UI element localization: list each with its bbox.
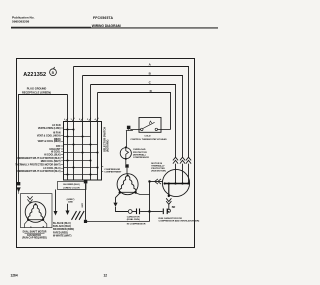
wire and to chassis [67,204,69,211]
switch contact row 6 [64,167,99,169]
wire from switch down [85,183,87,219]
connector chevrons wire C [173,157,178,163]
svg-text:AND: AND [68,201,73,204]
svg-text:VENT & COOL (MED): VENT & COOL (MED) [38,141,61,143]
svg-text:COMPARTMENT: COMPARTMENT [104,171,122,174]
wire square to thermostat [130,129,140,131]
wire C into motor [175,164,177,184]
capacitor label [127,215,146,225]
arrowhead on S lead [113,203,117,207]
svg-text:BLOWER (BLK): BLOWER (BLK) [63,184,80,186]
fan motor label [151,163,166,173]
svg-text:PLUG GROUND: PLUG GROUND [27,87,47,91]
blower motor label [22,230,47,239]
svg-text:1264: 1264 [11,274,18,278]
capacitor plates section 1 [136,209,138,215]
svg-text:BR: BR [172,206,176,209]
connector chevrons left lead [155,179,161,184]
switch output junction square [84,180,88,184]
switch column 4 [97,93,99,181]
thermostat TH1 box [139,118,161,133]
plug / receptacle label [22,87,51,95]
switch contact row 4 [64,152,99,154]
fan motor winding stub [168,184,170,197]
blower winding left coil [28,204,36,219]
fan motor left lead [150,181,163,183]
header publication number [12,15,35,23]
svg-text:PERMANENT SPLIT CAP MOTOR (BLU: PERMANENT SPLIT CAP MOTOR (BLU) [17,170,60,173]
compressor S lead to capacitor [116,193,121,203]
svg-text:LO COOL (BLU): LO COOL (BLU) [43,168,61,170]
svg-text:IN COMPRESSOR: IN COMPRESSOR [127,224,146,226]
wire across bottom [86,221,150,223]
blower motor M2 [25,202,46,223]
svg-text:(GREY): (GREY) [67,199,75,201]
svg-text:COMPRESSOR: COMPRESSOR [133,157,149,159]
junction node on capacitor line [148,210,150,212]
blower winding right coil [36,204,44,219]
overload label [133,148,149,159]
svg-text:12: 12 [104,274,108,278]
compressor winding right coil [128,175,136,192]
connector chevrons into blower [27,196,32,202]
svg-text:HI FAN: HI FAN [53,132,61,135]
svg-text:OVERLOAD: OVERLOAD [133,148,146,151]
svg-text:(INTERNAL): (INTERNAL) [133,153,146,156]
svg-text:HI COOL: HI COOL [51,151,61,153]
svg-text:(DUAL RUN): (DUAL RUN) [127,218,140,221]
svg-text:GRY: GRY [82,202,84,207]
switch column 2 [82,76,84,181]
fan motor terminal bar [164,183,190,185]
overload bimetal symbol [126,147,129,159]
svg-text:MED COOL (WHT): MED COOL (WHT) [41,161,61,163]
wire color code legend [53,222,74,238]
wire D [98,93,171,130]
switch terminal hooks [66,118,99,121]
switch box right stubs [101,166,103,168]
thermostat actuator mark [149,121,152,124]
switch contact row 2 [64,136,91,138]
svg-text:CAPACITOR: CAPACITOR [127,215,140,218]
arrowhead [66,211,70,216]
svg-text:(GREY) COLOR: (GREY) COLOR [63,188,80,190]
connector chevrons wire A [186,157,191,163]
grey and note [67,199,75,204]
thermostat contacts [141,128,143,130]
wire overload to compressor terminal [125,159,127,164]
compressor winding left coil [119,175,127,192]
blower color legend box [58,182,87,190]
svg-text:FAN MOTOR: FAN MOTOR [27,234,41,237]
wire C [91,85,176,158]
svg-text:EXHAUST: EXHAUST [50,148,62,151]
junction node [148,180,150,182]
connector chevrons wire B [180,157,185,163]
svg-text:RECEPTACLE (GREEN): RECEPTACLE (GREEN) [22,90,51,94]
arrowhead [54,211,58,216]
svg-text:RUN CAPACITOR FOR: RUN CAPACITOR FOR [159,217,183,220]
switch column L [67,122,69,181]
wire B into motor [182,164,184,184]
lower junction square [84,220,87,223]
wire thermostat to node D [158,129,171,131]
run capacitor C1 [128,210,132,214]
thermostat label [130,136,167,141]
switch name vertical text [102,127,109,152]
switch terminal labels [64,118,97,121]
thermostat input terminal square [127,126,130,130]
circled revision mark [50,67,57,76]
svg-text:VENTILATION (LOW): VENTILATION (LOW) [38,127,61,130]
switch column 3 [90,85,92,181]
blower compartment box [21,194,53,228]
wire square down to overload [126,130,133,148]
svg-text:(RUN CAP REQUIRED): (RUN CAP REQUIRED) [22,237,47,240]
chassis ground [72,211,85,220]
switch column 1 [73,67,75,181]
overload protector [120,148,131,159]
svg-text:5995363208: 5995363208 [12,19,29,23]
svg-text:OFF: OFF [56,146,61,148]
svg-text:A221352: A221352 [23,72,46,78]
switch contact row 1 [64,129,75,131]
thermostat blade [143,122,155,128]
svg-text:LO FAN: LO FAN [52,124,61,127]
terminal ring [168,204,170,209]
rotary switch box [64,122,102,181]
diagram border frame [17,59,195,248]
run capacitor note [159,217,200,223]
line wire L from plug to switch [67,95,69,122]
svg-text:COMPRESSOR AND VENTILATOR (BR): COMPRESSOR AND VENTILATOR (BR) [159,220,200,223]
compressor R lead to junction [135,193,149,195]
compressor motor [117,174,138,195]
wire B [83,76,183,158]
switch contact row 5 [64,160,92,162]
svg-text:PERMANENT SPLIT CAP MOTOR (BLK: PERMANENT SPLIT CAP MOTOR (BLK) [17,157,60,160]
svg-text:FFC0565TA: FFC0565TA [93,16,114,20]
wire legend to chassis [55,190,57,212]
arrow connector on ground wire [17,187,21,192]
ground wire from plug [19,95,68,183]
connector chevrons bottom lead [166,198,171,204]
svg-text:(FAN MOTOR): (FAN MOTOR) [151,169,166,172]
switch position labels [15,124,61,173]
wire A into motor [188,164,190,184]
compressor terminal square [125,164,128,167]
switch contact row 7 [64,174,98,176]
svg-text:VENT & COOL (HIGH): VENT & COOL (HIGH) [37,135,61,137]
blower leads to box [25,220,47,228]
wire from junction down to capacitor [149,182,151,222]
fan motor M1 [162,169,189,196]
svg-text:(ROTARY): (ROTARY) [106,139,110,152]
wire A [74,67,189,158]
header rule [11,27,218,29]
svg-text:COLD: COLD [144,136,151,138]
svg-text:THERMALLY PROTECTED MOTOR (WHT: THERMALLY PROTECTED MOTOR (WHT) [15,163,60,166]
svg-text:CONTROL THERMOSTAT AT HEAD: CONTROL THERMOSTAT AT HEAD [130,138,167,141]
switch contact row 3 [64,144,98,146]
svg-text:HI COOL (BLK): HI COOL (BLK) [44,155,61,157]
compressor label [104,169,122,174]
ground terminal square [17,182,20,185]
svg-text:W-WHITE (WHT): W-WHITE (WHT) [53,235,72,238]
label tick marks [61,128,63,171]
capacitor plates section 2 [162,209,164,215]
